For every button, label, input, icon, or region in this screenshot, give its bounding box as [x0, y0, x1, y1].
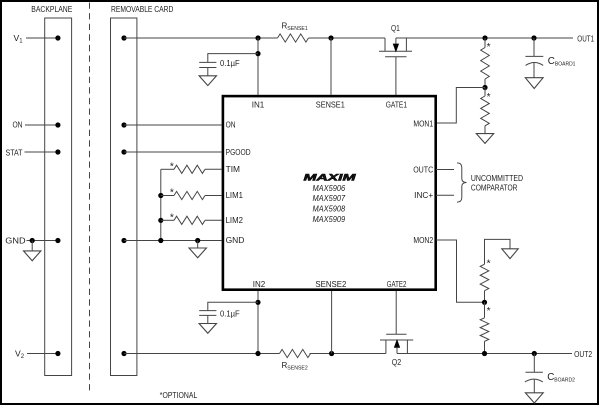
IC pin label OUTC: [413, 166, 433, 175]
capacitor 0.1uF (top): [199, 62, 216, 67]
node V2 backplane: [55, 351, 60, 356]
asterisk LIM2 resistor: [170, 212, 174, 223]
node SENSE1 tee: [328, 35, 333, 40]
svg-text:LIM1: LIM1: [226, 191, 244, 200]
ground CBOARD1: [525, 78, 543, 89]
wire TIM row right: [205, 168, 222, 170]
svg-text:*: *: [487, 306, 491, 317]
resistor LIM2 (optional): [174, 216, 205, 224]
svg-text:ON: ON: [226, 121, 236, 130]
IC pin label SENSE1: [316, 101, 345, 110]
label OUT2: [574, 350, 592, 359]
IC pin label IN2: [253, 280, 266, 289]
node GND backplane: [55, 238, 60, 243]
ground backplane: [24, 241, 41, 261]
svg-text:GATE1: GATE1: [386, 101, 408, 110]
part number MAX5908: [312, 205, 345, 214]
resistor RSENSE2: [280, 349, 311, 357]
node PGOOD card: [121, 149, 126, 154]
IC pin label MON2: [413, 236, 433, 245]
IC pin label MON1: [413, 119, 433, 128]
IC pin label IN1: [252, 101, 265, 110]
svg-text:OUT1: OUT1: [577, 34, 594, 43]
svg-text:Q2: Q2: [392, 358, 402, 367]
brace uncommitted comparator: [457, 163, 467, 202]
label OUT1: [577, 34, 594, 43]
transistor Q2: [380, 334, 413, 353]
node CBOARD1 tee: [531, 35, 536, 40]
svg-text:IN1: IN1: [252, 101, 265, 110]
wire TIM row left: [161, 168, 174, 170]
pin label GND: [5, 237, 25, 246]
IC pin label GATE2: [387, 280, 407, 289]
IC pin label LIM2: [226, 216, 244, 225]
svg-text:ON: ON: [13, 121, 23, 130]
svg-text:STAT: STAT: [6, 148, 23, 157]
wire RSENSE2 to Q2: [310, 353, 386, 355]
svg-text:TIM: TIM: [226, 165, 241, 174]
svg-text:SENSE1: SENSE1: [316, 101, 345, 110]
resistor divider1 lower (optional): [481, 88, 490, 134]
node ON backplane: [55, 122, 60, 127]
node V1 backplane: [55, 35, 60, 40]
node V1 card: [121, 35, 126, 40]
resistor divider1 upper (optional): [481, 38, 490, 88]
label Q1: [391, 24, 400, 33]
node GND bus: [158, 238, 163, 243]
node ON card: [121, 122, 126, 127]
svg-text:MAX5906: MAX5906: [312, 184, 345, 193]
svg-text:BACKPLANE: BACKPLANE: [31, 5, 72, 14]
svg-text:RSENSE1: RSENSE1: [282, 21, 308, 32]
wire MON2: [436, 240, 485, 302]
node SENSE2 tee: [329, 351, 334, 356]
IC pin label TIM: [226, 165, 241, 174]
svg-text:MAXIM: MAXIM: [304, 171, 356, 182]
svg-text:CBOARD1: CBOARD1: [548, 56, 576, 68]
node 0.1uF tee on IN2: [255, 300, 260, 305]
wire V1 to backplane: [26, 37, 58, 39]
wire INC+ stub: [436, 194, 454, 196]
IC pin label GND: [226, 236, 245, 245]
wire RSENSE1 to Q1: [309, 37, 386, 39]
IC pin label SENSE2: [315, 280, 346, 289]
node IN2 rail tee: [255, 351, 260, 356]
svg-text:GATE2: GATE2: [387, 280, 407, 289]
label 0.1uF bottom: [220, 310, 240, 319]
asterisk divider1 upper: [487, 42, 491, 53]
svg-text:SENSE2: SENSE2: [315, 280, 346, 289]
resistor RSENSE1: [278, 34, 309, 42]
capacitor 0.1uF (bottom): [199, 311, 216, 316]
wire IN1 vertical: [257, 38, 259, 95]
svg-text:Q1: Q1: [391, 24, 400, 33]
label RSENSE2: [282, 361, 308, 372]
wire ON row: [124, 124, 222, 126]
resistor divider2 lower (optional): [480, 302, 489, 353]
label CBOARD1: [548, 56, 576, 68]
MAXIM logo: [304, 171, 356, 182]
wire LIM2 row right: [205, 219, 222, 221]
ground divider1: [476, 134, 493, 144]
svg-text:0.1µF: 0.1µF: [220, 59, 240, 68]
node 0.1uF tee on IN1: [255, 51, 260, 56]
removable card connector: [111, 18, 137, 376]
svg-text:GND: GND: [5, 237, 25, 246]
IC pin label GATE1: [386, 101, 408, 110]
resistor LIM1 (optional): [174, 191, 205, 199]
wire 0.1uF branch: [208, 54, 258, 63]
wire V2 to backplane: [27, 353, 58, 355]
svg-text:COMPARATOR: COMPARATOR: [471, 182, 518, 192]
node LIM1 bus: [158, 193, 163, 198]
node divider2 bottom: [482, 351, 487, 356]
transistor Q1: [379, 38, 412, 95]
svg-text:OUT2: OUT2: [574, 350, 592, 359]
svg-text:V2: V2: [15, 348, 25, 360]
wire ON to backplane: [25, 124, 58, 126]
ground 0.1uF top: [199, 68, 216, 86]
wire OUTC stub: [436, 169, 454, 171]
node CBOARD2 tee: [532, 351, 537, 356]
asterisk TIM resistor: [170, 161, 174, 172]
node STAT backplane: [55, 149, 60, 154]
wire GND row: [124, 240, 222, 242]
wire LIM1 row left: [161, 195, 174, 197]
backplane connector: [45, 18, 72, 376]
svg-text:IN2: IN2: [253, 280, 266, 289]
svg-text:REMOVABLE CARD: REMOVABLE CARD: [111, 5, 174, 14]
capacitor CBOARD1: [525, 38, 543, 78]
wire divider2 top to ground: [485, 239, 511, 264]
ground card GND: [189, 241, 206, 258]
ground divider2: [502, 249, 518, 259]
asterisk divider2 lower: [487, 306, 491, 317]
IC pin label LIM1: [226, 191, 244, 200]
svg-text:INC+: INC+: [414, 191, 433, 200]
IC pin label ON: [226, 121, 236, 130]
node GND symbol tee: [195, 238, 200, 243]
wire MON1: [436, 88, 485, 124]
svg-text:MON1: MON1: [413, 119, 433, 128]
pin label ON: [13, 121, 23, 130]
part number MAX5909: [312, 215, 345, 224]
label BACKPLANE: [31, 5, 72, 14]
svg-text:*OPTIONAL: *OPTIONAL: [160, 390, 198, 400]
note *OPTIONAL: [160, 390, 198, 400]
wire IN2 vertical: [257, 291, 259, 354]
part number MAX5906: [312, 184, 345, 193]
label CBOARD2: [547, 372, 575, 384]
svg-text:MAX5909: MAX5909: [312, 215, 345, 224]
svg-text:MON2: MON2: [413, 236, 433, 245]
svg-text:MAX5907: MAX5907: [312, 194, 345, 203]
asterisk LIM1 resistor: [170, 188, 174, 199]
label RSENSE1: [282, 21, 308, 32]
wire SENSE2 vertical: [331, 291, 333, 354]
svg-text:*: *: [487, 92, 491, 103]
svg-text:*: *: [170, 188, 174, 199]
svg-text:MAX5908: MAX5908: [312, 205, 345, 214]
svg-text:*: *: [487, 258, 491, 269]
label REMOVABLE CARD: [111, 5, 174, 14]
IC pin label INC+: [414, 191, 433, 200]
svg-text:V1: V1: [14, 33, 24, 45]
wire rail1 Q1 to OUT1: [396, 37, 573, 39]
capacitor CBOARD2: [525, 354, 543, 393]
svg-text:*: *: [170, 212, 174, 223]
label 0.1uF top: [220, 59, 240, 68]
wire GATE2 vertical: [395, 291, 397, 334]
svg-text:GND: GND: [226, 236, 245, 245]
wire LIM1 row right: [205, 195, 222, 197]
ground 0.1uF bottom: [199, 315, 216, 333]
svg-text:CBOARD2: CBOARD2: [547, 372, 575, 384]
asterisk divider2 upper: [487, 258, 491, 269]
wire PGOOD row: [124, 151, 222, 153]
node divider1 mid: [482, 85, 487, 90]
dashed separator line: [89, 3, 91, 395]
node LIM2 bus: [158, 218, 163, 223]
wire rail1 card to RSENSE1: [124, 37, 278, 39]
node GND stub: [30, 238, 35, 243]
pin label V1: [14, 33, 24, 45]
resistor TIM (optional): [174, 165, 205, 173]
pin label V2: [15, 348, 25, 360]
IC U1 MAX5906: [223, 96, 436, 290]
asterisk divider1 lower: [487, 92, 491, 103]
node GND card: [121, 238, 126, 243]
label UNCOMMITTED: [471, 173, 523, 183]
resistor divider2 upper (optional): [480, 264, 489, 302]
label Q2: [392, 358, 402, 367]
svg-text:*: *: [487, 42, 491, 53]
wire LIM2 row left: [161, 219, 174, 221]
pin label STAT: [6, 148, 23, 157]
ground CBOARD2: [525, 393, 543, 403]
wire rail2 card to RSENSE2: [124, 353, 280, 355]
part number MAX5907: [312, 194, 345, 203]
label COMPARATOR: [471, 182, 518, 192]
wire 0.1uF branch bottom: [208, 302, 258, 310]
svg-text:OUTC: OUTC: [413, 166, 433, 175]
svg-text:PGOOD: PGOOD: [226, 148, 251, 157]
svg-text:0.1µF: 0.1µF: [220, 310, 240, 319]
wire STAT to backplane: [25, 151, 58, 153]
svg-text:LIM2: LIM2: [226, 216, 244, 225]
IC pin label PGOOD: [226, 148, 251, 157]
wire GND to backplane: [27, 240, 58, 242]
wire LIM bus vertical: [160, 169, 162, 240]
node IN1 tee on rail1: [255, 35, 260, 40]
svg-text:*: *: [170, 161, 174, 172]
node divider2 mid: [482, 300, 487, 305]
svg-text:RSENSE2: RSENSE2: [282, 361, 308, 372]
node divider1 top: [482, 35, 487, 40]
node V2 card: [121, 351, 126, 356]
wire rail2 Q2 to OUT2: [397, 353, 572, 355]
wire SENSE1 vertical: [330, 38, 332, 95]
